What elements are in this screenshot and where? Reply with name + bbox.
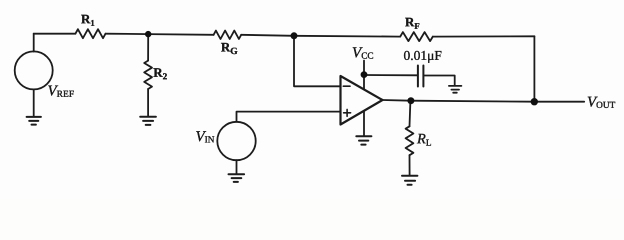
svg-text:R2: R2 [153, 65, 167, 82]
ground under RL [402, 176, 417, 185]
wire RG to node B [241, 35, 294, 36]
output node dot at feedback [531, 98, 538, 105]
wire VCC node to capacitor [364, 74, 417, 76]
resistor RL [406, 126, 414, 155]
resistor RG [214, 31, 242, 39]
ground under R2 [140, 117, 156, 125]
wire op-amp output [383, 100, 585, 102]
output node dot at RL [407, 97, 414, 104]
node B junction dot [291, 32, 298, 39]
wire VIN to non-inverting input [237, 112, 341, 122]
wire RF to right corner [433, 35, 535, 37]
voltage source VIN [217, 122, 255, 160]
resistor R2 [144, 61, 152, 89]
wire node B down to inverting input [294, 36, 341, 87]
svg-text:VIN: VIN [195, 129, 214, 145]
wire VIN to ground [236, 160, 238, 173]
ground under op-amp [356, 136, 371, 144]
ground under VREF [27, 117, 41, 125]
svg-text:R1: R1 [81, 11, 95, 28]
capacitor C1 0.01uF plates [418, 66, 424, 87]
wire node A to RG [148, 33, 213, 36]
op-amp plus sign [344, 109, 351, 116]
wire R1 to node A [106, 33, 149, 35]
wire RL to ground [409, 155, 411, 175]
voltage source VREF [15, 51, 53, 89]
svg-text:RF: RF [405, 14, 420, 31]
op-amp minus sign [343, 85, 350, 87]
ground under VIN [229, 174, 245, 182]
wire VCC stub through dot into op-amp top [363, 61, 365, 90]
resistor R1 [75, 29, 105, 38]
wire R2 to ground [147, 89, 149, 116]
wire VREF top riser [33, 34, 35, 52]
wire VREF to R1 [34, 33, 76, 35]
op-amp U1 [341, 76, 383, 125]
svg-text:RL: RL [416, 131, 432, 148]
wire VREF to ground [33, 89, 35, 116]
wire node B to RF [294, 35, 400, 38]
svg-text:VOUT: VOUT [587, 94, 616, 110]
wire op-amp V- pin to ground [363, 111, 365, 136]
svg-text:VREF: VREF [48, 83, 75, 100]
ground at capacitor [449, 86, 462, 93]
svg-text:0.01μF: 0.01μF [404, 48, 443, 63]
svg-text:RG: RG [221, 39, 238, 57]
wire node A down to R2 [147, 34, 149, 61]
wire capacitor to ground stub [424, 76, 454, 86]
node A junction dot [145, 31, 151, 37]
wire feedback drop to output node [533, 36, 535, 101]
wire output node down to RL [409, 101, 412, 127]
VCC node dot [361, 71, 368, 78]
resistor RF [400, 32, 433, 41]
svg-text:VCC: VCC [352, 45, 374, 61]
